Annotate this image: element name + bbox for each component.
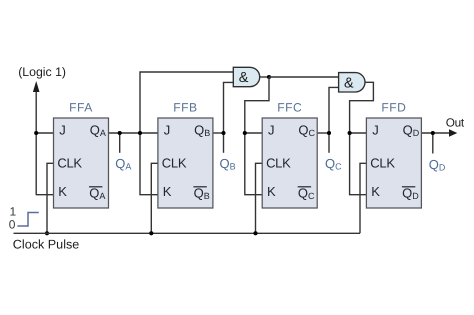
node FFC J junction: [243, 131, 247, 135]
svg-text:K: K: [58, 184, 67, 199]
node QC junction: [327, 131, 331, 135]
flip-flop FFA body: [54, 118, 109, 208]
wire AND1 output down to FFC J: [245, 77, 269, 133]
wire QC to tap: [317, 132, 329, 134]
wire AND1 to AND2 rail: [269, 76, 339, 78]
wire QA tap: [119, 133, 121, 153]
svg-text:J: J: [59, 123, 66, 138]
node clock junction FFB: [149, 231, 153, 235]
svg-text:(Logic 1): (Logic 1): [18, 65, 66, 79]
svg-text:FFB: FFB: [173, 100, 197, 114]
svg-text:CLK: CLK: [57, 155, 82, 170]
svg-text:K: K: [163, 184, 172, 199]
svg-text:CLK: CLK: [370, 155, 395, 170]
node J-K tie FFA: [34, 131, 38, 135]
node QA branch: [138, 131, 142, 135]
svg-text:J: J: [268, 123, 275, 138]
node clock junction FFC: [253, 231, 257, 235]
svg-text:FFA: FFA: [69, 100, 93, 114]
overline QbarC FFC: [298, 186, 311, 187]
wire QC tap: [328, 133, 330, 153]
node FFD J junction: [348, 131, 352, 135]
wire QC up branch to AND2: [329, 87, 339, 133]
wire QA up branch to AND1: [140, 72, 233, 133]
flip-flop FFA: [54, 118, 109, 208]
wire QD tap: [432, 133, 434, 154]
wire CLK drop FFA: [47, 163, 54, 233]
svg-text:K: K: [267, 184, 276, 199]
wire QD out: [421, 132, 449, 134]
wire CLK drop FFD: [360, 163, 366, 233]
AND gate U2: [339, 73, 365, 92]
node clock junction FFA: [45, 231, 49, 235]
svg-text:FFC: FFC: [277, 100, 302, 114]
svg-text:0: 0: [9, 217, 16, 231]
flip-flop FFB body: [158, 118, 213, 208]
wire AND1 output stub: [260, 76, 269, 78]
svg-text:J: J: [372, 123, 379, 138]
wire AND2 output down to FFD J: [350, 82, 374, 133]
wire QB to tap: [213, 132, 224, 134]
flip-flop FFC body: [262, 118, 317, 208]
flip-flop FFD: [366, 118, 421, 208]
wire J-K tie FFC: [245, 133, 262, 195]
svg-text:Clock Pulse: Clock Pulse: [13, 237, 80, 251]
AND gate U1: [233, 67, 259, 86]
wire QB up branch to AND1: [224, 82, 234, 133]
overline QbarB FFB: [193, 186, 206, 187]
flip-flop FFD body: [366, 118, 421, 208]
wire QA to FFB J: [109, 132, 158, 134]
arrowhead logic-1: [33, 81, 40, 92]
flip-flop FFC: [262, 118, 317, 208]
node QB junction: [221, 131, 225, 135]
wire J stub FFC: [245, 132, 262, 134]
node QA tap: [118, 131, 122, 135]
svg-text:CLK: CLK: [266, 155, 291, 170]
arrowhead Out: [449, 129, 457, 136]
clock step symbol: [17, 213, 38, 227]
wire CLK drop FFC: [256, 163, 263, 233]
node QD junction: [431, 131, 435, 135]
wire J stub FFA: [36, 132, 53, 134]
wire J-K tie FFD: [350, 133, 367, 195]
svg-text:Out: Out: [446, 116, 465, 130]
wire QB tap: [223, 133, 225, 153]
svg-text:FFD: FFD: [381, 100, 406, 114]
svg-text:J: J: [164, 123, 171, 138]
wire clock rail: [14, 232, 361, 234]
svg-text:K: K: [371, 184, 380, 199]
wire CLK drop FFB: [151, 163, 158, 233]
overline QbarD FFD: [402, 186, 415, 187]
wire J stub FFD: [350, 132, 367, 134]
wire K stub FFA: [36, 194, 54, 196]
node AND1 output: [267, 75, 271, 79]
flip-flop FFB: [158, 118, 213, 208]
svg-text:&: &: [239, 70, 249, 86]
svg-text:CLK: CLK: [162, 155, 187, 170]
svg-text:&: &: [344, 75, 354, 91]
overline QbarA FFA: [89, 186, 102, 187]
wire J-K tie FFB: [140, 133, 158, 195]
wire logic-1 vertical with arrowhead: [35, 89, 37, 195]
